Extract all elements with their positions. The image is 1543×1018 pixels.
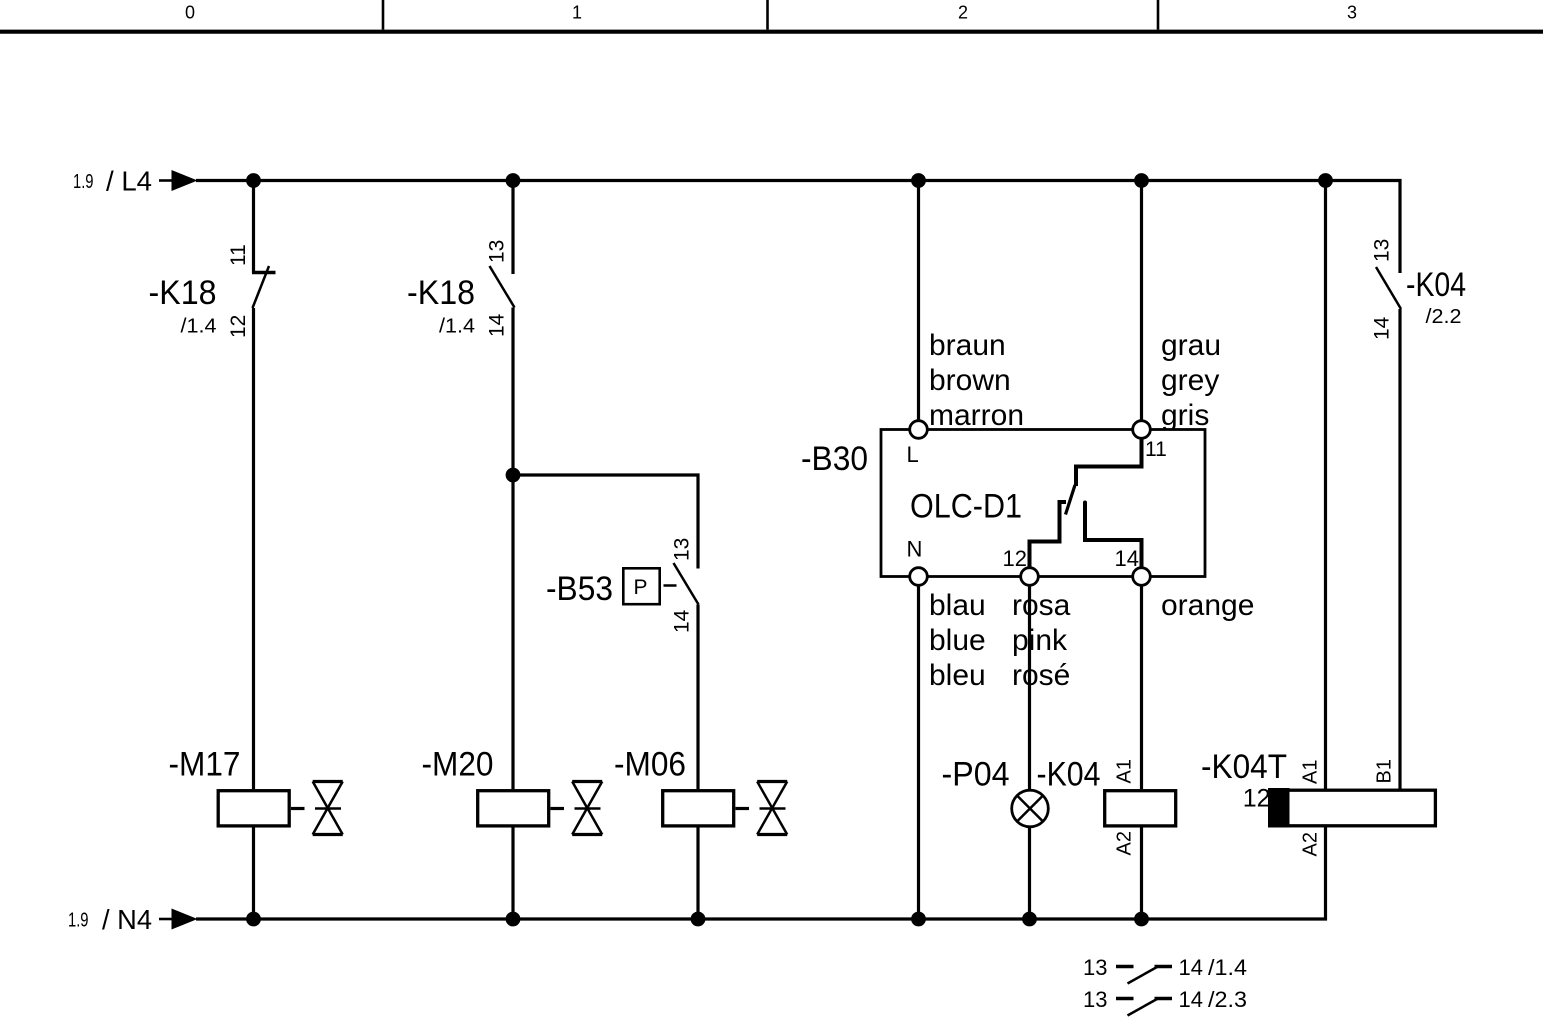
svg-text:/1.4: /1.4 bbox=[439, 316, 475, 338]
svg-text:0: 0 bbox=[185, 3, 195, 23]
wire orange bbox=[1140, 586, 1143, 790]
svg-text:13: 13 bbox=[671, 538, 694, 561]
contact K18 13-14 NO bbox=[486, 240, 515, 337]
wire L4 rail bbox=[196, 179, 1402, 182]
svg-text:/2.3: /2.3 bbox=[1208, 987, 1247, 1012]
svg-text:11: 11 bbox=[1145, 438, 1167, 461]
level sensor B30 box OLC-D1 bbox=[881, 430, 1205, 577]
svg-text:12: 12 bbox=[1243, 785, 1271, 813]
svg-text:grey: grey bbox=[1161, 364, 1219, 397]
pressure switch B53 contact bbox=[671, 538, 699, 633]
solenoid coil M17 bbox=[218, 791, 289, 826]
terminal N bbox=[910, 568, 928, 586]
wire K04 contact to B1 bbox=[1398, 309, 1401, 789]
wire K04 contact branch upper bbox=[1398, 179, 1401, 273]
svg-text:1.9: 1.9 bbox=[68, 910, 89, 932]
svg-text:-K04: -K04 bbox=[1037, 756, 1101, 794]
svg-text:N: N bbox=[907, 537, 923, 562]
junction N4 K04 coil bbox=[1134, 912, 1149, 927]
svg-text:13: 13 bbox=[1371, 239, 1394, 262]
wire branch1 upper bbox=[252, 181, 255, 274]
lamp P04 bbox=[1012, 790, 1049, 827]
node L4 source arrow bbox=[73, 166, 198, 197]
svg-text:brown: brown bbox=[929, 364, 1011, 397]
wire braun upper bbox=[917, 181, 920, 422]
wire rosa bbox=[1028, 586, 1031, 790]
wire K04T A1 upper bbox=[1324, 181, 1327, 790]
contact K18 11-12 NC bbox=[227, 244, 276, 338]
svg-text:14: 14 bbox=[671, 609, 694, 633]
column ruler header bbox=[0, 0, 1543, 32]
svg-text:/ N4: / N4 bbox=[102, 904, 152, 935]
svg-text:14: 14 bbox=[1115, 546, 1139, 571]
svg-text:-P04: -P04 bbox=[942, 756, 1010, 794]
svg-text:14: 14 bbox=[1179, 987, 1203, 1012]
junction L4 branch 2 bbox=[506, 173, 521, 188]
node N4 source arrow bbox=[68, 904, 198, 935]
solenoid coil M20 bbox=[478, 791, 549, 826]
cross-reference contact 13-14 /2.3 bbox=[1083, 987, 1247, 1016]
valve symbol M06 bbox=[736, 782, 788, 835]
svg-text:14: 14 bbox=[1371, 316, 1394, 340]
wire branch3 lower bbox=[696, 828, 699, 920]
wire blau lower bbox=[917, 586, 920, 920]
valve symbol M20 bbox=[551, 782, 603, 835]
svg-text:13: 13 bbox=[1083, 987, 1107, 1012]
label rosa pink rose bbox=[1012, 589, 1071, 692]
svg-text:bleu: bleu bbox=[929, 659, 986, 692]
wire branch2 lower bbox=[511, 828, 514, 920]
wire B53 branch horizontal bbox=[513, 473, 700, 476]
cross-reference contact 13-14 /1.4 bbox=[1083, 955, 1247, 984]
valve symbol M17 bbox=[291, 782, 343, 835]
label -K18 /1.4 (mid) bbox=[407, 274, 475, 338]
svg-text:/1.4: /1.4 bbox=[181, 316, 217, 338]
wire branch1 middle bbox=[252, 308, 255, 789]
svg-text:-K04: -K04 bbox=[1406, 266, 1466, 304]
junction N4 branch 3 bbox=[691, 912, 706, 927]
label braun brown marron bbox=[929, 329, 1024, 432]
wire B53 branch vertical upper bbox=[696, 474, 699, 569]
svg-text:-M20: -M20 bbox=[422, 746, 494, 784]
junction L4 branch 1 bbox=[246, 173, 261, 188]
svg-text:/1.4: /1.4 bbox=[1208, 955, 1247, 980]
svg-text:-K18: -K18 bbox=[407, 274, 475, 312]
svg-text:2: 2 bbox=[958, 3, 968, 23]
label blau blue bleu bbox=[929, 589, 986, 692]
svg-text:A2: A2 bbox=[1300, 832, 1322, 856]
svg-text:pink: pink bbox=[1012, 624, 1068, 657]
wire branch1 lower bbox=[252, 828, 255, 920]
terminal 11 bbox=[1133, 421, 1151, 439]
junction N4 branch 1 bbox=[246, 912, 261, 927]
wire K04T A2 lower bbox=[1324, 827, 1327, 921]
svg-text:rosé: rosé bbox=[1012, 659, 1070, 692]
svg-text:grau: grau bbox=[1161, 329, 1221, 362]
junction N4 branch 2 bbox=[506, 912, 521, 927]
wire K04 coil lower bbox=[1140, 828, 1143, 920]
internal changeover contact of B30 bbox=[1028, 437, 1144, 568]
svg-text:blue: blue bbox=[929, 624, 986, 657]
junction L4 braun bbox=[911, 173, 926, 188]
label -K18 /1.4 (left) bbox=[149, 274, 217, 338]
svg-text:14: 14 bbox=[486, 313, 509, 337]
label -K04 /2.2 bbox=[1406, 266, 1466, 328]
svg-text:-K18: -K18 bbox=[149, 274, 217, 312]
solenoid coil M06 bbox=[663, 791, 734, 826]
svg-text:-B53: -B53 bbox=[546, 570, 613, 608]
svg-text:13: 13 bbox=[1083, 955, 1107, 980]
relay coil K04 bbox=[1105, 759, 1176, 855]
junction L4 K04T bbox=[1318, 173, 1333, 188]
svg-text:-M17: -M17 bbox=[169, 746, 241, 784]
contact K04 13-14 NO bbox=[1371, 239, 1402, 340]
svg-text:/2.2: /2.2 bbox=[1426, 306, 1462, 328]
junction L4 grau bbox=[1134, 173, 1149, 188]
svg-text:-K04T: -K04T bbox=[1201, 748, 1287, 786]
terminal 14 bbox=[1133, 568, 1151, 586]
svg-text:A1: A1 bbox=[1114, 759, 1136, 783]
wire branch3 middle bbox=[696, 605, 699, 790]
wire grau upper bbox=[1140, 181, 1143, 422]
svg-text:3: 3 bbox=[1347, 3, 1357, 23]
svg-text:1.9: 1.9 bbox=[73, 171, 94, 193]
svg-text:1: 1 bbox=[572, 3, 582, 23]
terminal L bbox=[910, 421, 928, 439]
svg-text:/ L4: / L4 bbox=[106, 166, 152, 197]
svg-text:-B30: -B30 bbox=[801, 440, 868, 478]
label grau grey gris bbox=[1161, 329, 1221, 432]
wire rosa lower bbox=[1028, 828, 1031, 919]
svg-text:rosa: rosa bbox=[1012, 589, 1071, 622]
svg-text:B1: B1 bbox=[1374, 759, 1396, 783]
wire branch2 upper bbox=[511, 181, 514, 275]
svg-text:OLC-D1: OLC-D1 bbox=[910, 488, 1022, 526]
svg-text:marron: marron bbox=[929, 399, 1024, 432]
timer relay coil K04T bbox=[1243, 759, 1436, 856]
wire branch2 middle bbox=[511, 308, 514, 790]
svg-text:13: 13 bbox=[486, 240, 509, 263]
junction N4 blau bbox=[911, 912, 926, 927]
svg-text:A2: A2 bbox=[1114, 831, 1136, 855]
svg-text:-M06: -M06 bbox=[614, 746, 686, 784]
svg-text:gris: gris bbox=[1161, 399, 1209, 432]
svg-text:14: 14 bbox=[1179, 955, 1203, 980]
svg-text:11: 11 bbox=[227, 244, 250, 266]
svg-text:12: 12 bbox=[227, 315, 250, 338]
wire N4 rail bbox=[196, 917, 1327, 920]
svg-text:P: P bbox=[633, 576, 647, 599]
svg-text:blau: blau bbox=[929, 589, 986, 622]
svg-text:12: 12 bbox=[1003, 546, 1027, 571]
svg-text:braun: braun bbox=[929, 329, 1006, 362]
svg-text:L: L bbox=[907, 442, 919, 467]
svg-text:orange: orange bbox=[1161, 589, 1254, 622]
terminal 12 bbox=[1021, 568, 1039, 586]
junction N4 rosa bbox=[1022, 912, 1037, 927]
junction branch2 to B53 bbox=[506, 468, 521, 483]
svg-text:A1: A1 bbox=[1300, 760, 1322, 784]
pressure sensor box P bbox=[623, 568, 676, 604]
